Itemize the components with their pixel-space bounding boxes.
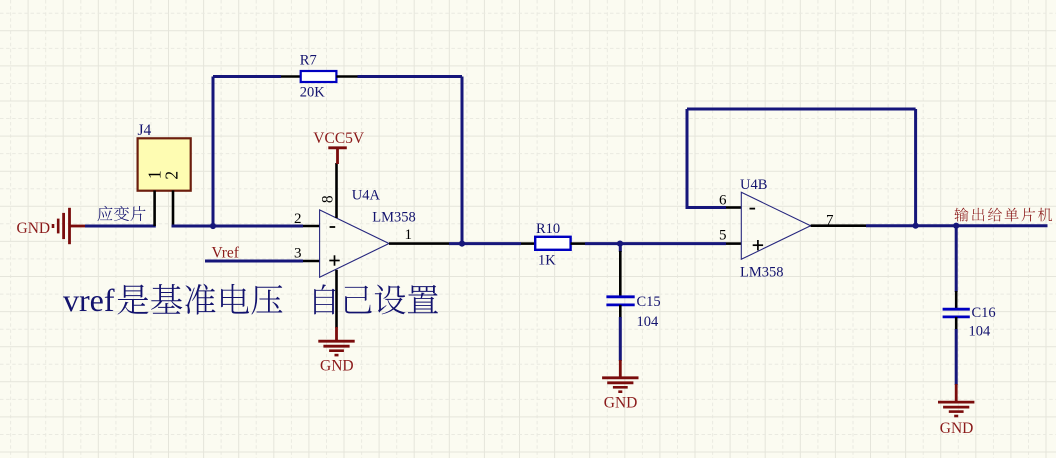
svg-text:2: 2 xyxy=(294,211,302,227)
svg-text:vref: vref xyxy=(63,282,115,318)
svg-text:C15: C15 xyxy=(637,294,661,310)
svg-text:104: 104 xyxy=(637,314,660,330)
svg-text:C16: C16 xyxy=(972,305,996,321)
svg-text:R10: R10 xyxy=(536,221,560,237)
svg-text:8: 8 xyxy=(320,195,337,203)
svg-text:GND: GND xyxy=(320,357,354,374)
svg-text:6: 6 xyxy=(719,192,727,208)
svg-text:104: 104 xyxy=(969,324,992,340)
svg-text:2: 2 xyxy=(162,171,182,180)
svg-text:J4: J4 xyxy=(138,122,152,139)
svg-text:R7: R7 xyxy=(300,53,317,69)
svg-text:LM358: LM358 xyxy=(740,264,784,280)
svg-text:3: 3 xyxy=(294,246,302,262)
svg-text:1: 1 xyxy=(405,227,413,243)
svg-text:U4A: U4A xyxy=(352,188,381,204)
svg-text:1K: 1K xyxy=(538,252,556,268)
svg-text:20K: 20K xyxy=(300,84,326,100)
svg-text:GND: GND xyxy=(940,420,974,437)
svg-text:VCC5V: VCC5V xyxy=(313,130,365,147)
svg-text:Vref: Vref xyxy=(212,245,240,262)
svg-text:GND: GND xyxy=(604,394,638,411)
svg-text:5: 5 xyxy=(719,227,727,243)
svg-text:GND: GND xyxy=(17,220,51,237)
svg-text:U4B: U4B xyxy=(740,177,767,193)
svg-text:LM358: LM358 xyxy=(372,210,416,226)
